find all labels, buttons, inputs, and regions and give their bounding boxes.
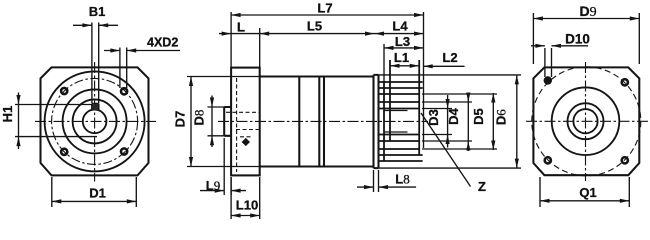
dimension L [219, 31, 260, 35]
right view hole bottom-right [622, 157, 628, 163]
dimension 4XD2 [104, 48, 180, 89]
dimension D9 [533, 13, 639, 64]
dimension B1 [73, 23, 118, 104]
svg-text:L5: L5 [307, 19, 322, 34]
svg-text:L2: L2 [442, 50, 457, 65]
middle view centerline [218, 120, 428, 122]
right view hole top-left filled [544, 76, 552, 84]
dimension L7 [231, 12, 423, 148]
svg-text:D7: D7 [172, 111, 187, 128]
svg-text:L1: L1 [394, 50, 409, 65]
right view vertical centerline [585, 62, 587, 181]
dimension L3 [384, 44, 424, 82]
middle view input flange block [231, 68, 260, 176]
left view hub circle [73, 99, 117, 143]
svg-text:L10: L10 [236, 198, 258, 213]
dimension D1 [52, 177, 137, 207]
left view vertical centerline [94, 62, 96, 182]
right view ring circle [568, 103, 604, 139]
dimension L4 [375, 31, 424, 35]
left view keyway slot [92, 104, 99, 111]
svg-text:D10: D10 [565, 32, 590, 47]
middle view output boss stack [380, 60, 423, 161]
svg-text:4XD2: 4XD2 [147, 36, 178, 50]
spline leader Z [421, 113, 471, 187]
dimension D4 [422, 93, 472, 152]
svg-text:L7: L7 [317, 1, 332, 16]
middle view output plate [374, 75, 379, 168]
left view bore circle [83, 110, 107, 134]
svg-text:D5: D5 [471, 108, 486, 125]
dimension H1 [15, 93, 97, 150]
middle view input shaft [224, 107, 231, 136]
dimension D5 [422, 93, 497, 150]
svg-text:D6: D6 [494, 109, 509, 125]
left view bolt hole bottom-right [121, 148, 127, 154]
left view bolt hole top-right [121, 88, 127, 94]
svg-text:D9: D9 [579, 3, 596, 20]
left view bolt hole top-left [61, 88, 67, 94]
middle view body [260, 77, 374, 167]
left view horizontal centerline [35, 120, 156, 122]
svg-text:L: L [237, 20, 245, 35]
right view boss circle [552, 87, 620, 155]
svg-text:L8: L8 [395, 172, 409, 187]
middle view flange bolt dot [240, 136, 252, 138]
left view outer circle [45, 71, 145, 171]
dimension D3 [422, 95, 452, 148]
svg-text:D8: D8 [191, 110, 206, 126]
svg-text:D4: D4 [446, 108, 461, 125]
svg-text:L9: L9 [206, 178, 220, 193]
right view bore circle [573, 109, 597, 133]
svg-text:L4: L4 [392, 19, 408, 34]
dimension D10 [531, 44, 588, 77]
dimension D7 [187, 77, 260, 167]
dimension D6 [379, 75, 522, 168]
dimension L9 [200, 138, 246, 195]
right view hole bottom-left [545, 157, 551, 163]
dimension L1 [390, 64, 419, 68]
dimension D8 [208, 96, 225, 148]
left view mid circle [63, 89, 127, 153]
left view bolt hole bottom-left [61, 149, 67, 155]
dimension L5 [260, 28, 375, 67]
svg-text:B1: B1 [89, 4, 106, 19]
svg-text:L3: L3 [395, 34, 410, 49]
dimension L8 [357, 170, 416, 192]
svg-text:H1: H1 [0, 106, 15, 123]
left view flange square [41, 67, 149, 175]
dimension Q1 [540, 177, 629, 207]
middle view input keyway hidden lines [226, 112, 259, 129]
right view horizontal centerline [526, 120, 649, 122]
left view bolt circle centerline [52, 78, 138, 164]
svg-text:Z: Z [478, 179, 486, 194]
right view hidden body circle [532, 67, 641, 176]
middle view flange hidden line [236, 78, 238, 172]
svg-text:Q1: Q1 [579, 185, 596, 200]
dimension L2 [423, 64, 464, 68]
right view flange square [533, 67, 639, 175]
dimension L10 [231, 177, 260, 219]
right view hole top-right [622, 79, 628, 85]
svg-text:D1: D1 [89, 186, 106, 201]
